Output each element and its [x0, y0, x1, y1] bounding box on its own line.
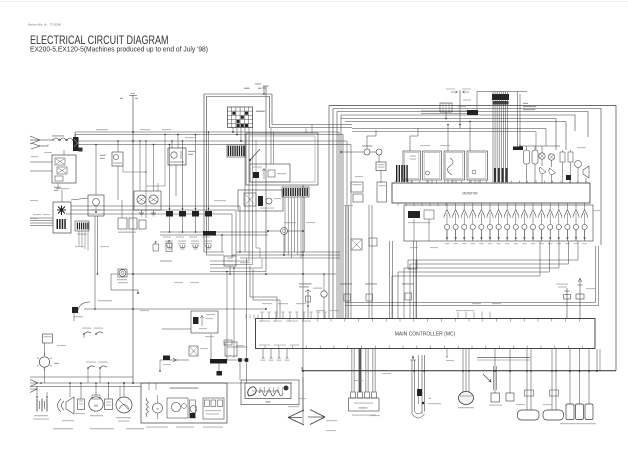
indicator lamp L2: [548, 154, 554, 160]
aircon compressor clutch: [190, 406, 197, 413]
note text: [523, 103, 528, 104]
mc internal bottom ticks: [264, 346, 266, 349]
wire bus drop to engine stop: [221, 235, 223, 252]
wire monitor feed lines: [341, 118, 556, 120]
svg-text:Machine Mfg. No. : TT150045: Machine Mfg. No. : TT150045: [28, 24, 62, 27]
wire key switch lead up: [61, 190, 63, 202]
arrow bus left b: [30, 389, 37, 393]
aux components right: [560, 152, 565, 162]
junction box: [105, 399, 113, 410]
connector pins dark: [396, 165, 397, 182]
wire sensor drop: [459, 90, 461, 129]
wire main bus lines: [75, 131, 339, 133]
ball connector: [462, 349, 464, 392]
wire trunk accessory: [265, 86, 267, 272]
engine stop unit: [224, 256, 236, 266]
monitor unit box: [392, 183, 590, 203]
wire panel feeds: [305, 129, 307, 134]
horn: [66, 397, 74, 414]
wire terminal stub: [263, 86, 265, 94]
wire lamp feeds: [139, 141, 141, 191]
arrow harness left: [288, 410, 304, 418]
engine stop controller box: [250, 164, 290, 182]
fuse box label: [256, 111, 265, 112]
radio unit: [245, 383, 291, 399]
cable loop: [411, 360, 413, 414]
node bus junctions: [132, 131, 134, 133]
gauge lamp pair box: [134, 191, 161, 210]
relay R1 safety: [112, 152, 123, 166]
dark connector band: [210, 359, 227, 364]
arrow harness right: [310, 410, 325, 418]
wire mid risers to mc: [307, 306, 309, 319]
socket connectors: [569, 349, 571, 404]
svg-text:EX200-5,EX120-5(Machines produ: EX200-5,EX120-5(Machines produced up to …: [30, 45, 208, 54]
main controller MC: [256, 319, 596, 349]
pressure switch: [78, 302, 90, 310]
wire bottom bus lower: [30, 386, 141, 388]
starter motor M: [89, 397, 103, 411]
wire fusebox drops: [232, 128, 234, 133]
wire bottom bus upper: [30, 376, 133, 378]
mc internal labels: [259, 321, 270, 322]
wire mid horizontals left: [210, 260, 249, 262]
wire bundle mid pairs: [345, 205, 347, 319]
resistance box: [376, 162, 386, 171]
diode set D1-D4: [165, 241, 173, 242]
wire alternator sense pair: [421, 110, 477, 112]
wire trunk center: [302, 186, 304, 412]
wire bus below mc: [302, 370, 616, 372]
wire key switch link: [71, 198, 88, 200]
fusible link box: [52, 155, 76, 183]
wire key switch outputs: [71, 205, 240, 207]
wire panel drop: [302, 185, 304, 187]
wire frame left verticals: [328, 106, 330, 319]
relay keyswitch right: [88, 195, 104, 216]
wire stub 447: [446, 349, 448, 357]
wire mc right drop: [596, 349, 598, 371]
fuse stub MC2: [579, 278, 581, 319]
wire frame second: [333, 109, 601, 246]
wire radio feed: [246, 258, 248, 383]
key switch KS: [53, 202, 71, 233]
radio enclosure: [241, 380, 299, 405]
panel cluster: [403, 151, 421, 180]
alternator G: [116, 397, 132, 413]
wire driver to MC fan staircase: [392, 241, 540, 319]
monitor bottom pin ticks: [397, 203, 399, 206]
engine stop motor box: [238, 190, 283, 211]
relay box aux2: [369, 238, 377, 246]
misc labels: [96, 129, 108, 130]
connector block CN1: [492, 94, 509, 100]
sensor box C: [377, 182, 387, 202]
transistor array Q1-Q17: [446, 203, 448, 209]
pump cluster boxes: [118, 218, 127, 229]
wire mc bus pair right: [345, 302, 596, 304]
wire pill drops: [526, 164, 528, 183]
relay box aux3: [408, 260, 417, 269]
wire bottom bus main: [30, 382, 292, 384]
wire frame fourth: [341, 115, 575, 131]
panel details: [426, 171, 430, 175]
node trunk top labels: [120, 98, 123, 99]
wire panel feeds: [409, 136, 411, 151]
node bus junctions bottom: [40, 382, 42, 384]
battery relay BR: [73, 137, 79, 151]
wire mid-left risers: [145, 141, 147, 218]
mc top pins right: [457, 312, 459, 319]
wire monitor bundle: [492, 92, 494, 184]
component labels row: [53, 428, 73, 429]
sensor stub A: [82, 328, 91, 329]
gauge pair circles: [364, 149, 370, 155]
wire sol relay: [268, 230, 281, 232]
arrow to battery: [30, 136, 40, 140]
wire trunk keyswitch feed: [132, 95, 134, 383]
connector stub B: [509, 349, 511, 393]
cap boxes above capsules: [550, 390, 559, 396]
wire segment below mc right: [477, 357, 530, 359]
mc internal ticks: [261, 319, 263, 322]
diode flag symbols: [153, 244, 159, 251]
monitor top pin ticks: [394, 181, 396, 184]
wire pipe to engine stop: [204, 251, 224, 253]
fuse box FB1: [228, 107, 253, 128]
relay engine box: [191, 311, 218, 333]
junction white box: [225, 342, 237, 356]
arrow bus left a: [30, 380, 38, 384]
sender unit: [78, 399, 85, 410]
switch panel enclosure: [246, 133, 318, 185]
thermo switch A: [86, 362, 96, 363]
transistor bird symbols: [539, 167, 546, 174]
indicator lamp L1: [539, 153, 545, 159]
annotation arrows: [451, 91, 458, 93]
hour meter HM: [118, 269, 127, 277]
driver left section: [408, 211, 420, 218]
harness arrow pointer: [483, 374, 491, 382]
wire fusible link leads: [30, 161, 52, 163]
wire panel drops: [407, 180, 409, 183]
sensor stub B: [94, 328, 103, 329]
wire comb drops: [78, 231, 80, 246]
wire pressure switch: [84, 308, 266, 310]
wire harness divider: [302, 377, 304, 425]
mc bottom stubs left: [262, 349, 264, 358]
wire frame outer: [302, 106, 616, 371]
connector grid C: [282, 187, 309, 197]
aircon resistor: [146, 398, 149, 417]
work light: [39, 357, 49, 367]
wire relay bus: [160, 231, 268, 233]
svg-text:MONITOR: MONITOR: [463, 192, 479, 196]
sensor arrow wire: [160, 359, 189, 361]
slow blow fuse B: [365, 283, 377, 284]
wire battery pipe bus: [204, 94, 272, 252]
wire mid horizontals: [236, 251, 340, 253]
aircon blower motor: [153, 403, 163, 413]
wire drop pair to radio junctions: [226, 272, 228, 348]
wire driver outputs: [446, 230, 448, 239]
wire harness top link: [477, 91, 527, 93]
fusible link symbol: [307, 289, 309, 306]
ground lamp B: [153, 210, 155, 213]
wire pipe drop to panel: [270, 128, 272, 164]
aircon switch panel: [203, 398, 224, 419]
wire fusebox drop bends: [256, 140, 260, 258]
wire mid-left ties: [123, 171, 146, 173]
mc top pins left: [261, 313, 263, 319]
wire aux pair: [517, 92, 519, 151]
wire frame third: [337, 112, 588, 138]
wire monitor feed extra: [352, 128, 546, 130]
ground lamp A: [141, 210, 143, 213]
page top edge: [0, 1, 628, 3]
thermo switch B: [98, 362, 108, 363]
aircon relay box: [167, 398, 188, 418]
switch lever: [250, 149, 260, 160]
fuel sender box: [43, 334, 53, 343]
sensor box A: [351, 182, 363, 192]
fuse stub MC1: [566, 288, 568, 319]
svg-text:M: M: [94, 403, 97, 408]
wire hour meter: [127, 273, 336, 275]
driver enclosure: [404, 205, 593, 241]
arrow to starter +B: [31, 143, 40, 146]
comb connector: [75, 221, 89, 231]
slow blow fuse C: [402, 283, 414, 284]
svg-text:MAIN CONTROLLER (MC): MAIN CONTROLLER (MC): [395, 332, 456, 338]
sensor box B: [353, 194, 363, 202]
aircon bottom labels: [146, 427, 168, 428]
wire bus corners down: [338, 132, 340, 319]
wire relay engine feed: [162, 328, 191, 330]
node battery terminal labels: [244, 88, 250, 89]
capsule connector B: [551, 349, 553, 410]
battery B1: [36, 399, 38, 412]
wire starter relay leads: [171, 141, 173, 148]
wire relay feeds: [169, 145, 171, 207]
lamp center: [321, 291, 327, 297]
capsule connector A: [526, 349, 528, 410]
relay box aux1: [351, 239, 362, 250]
aircon controller box: [141, 383, 227, 423]
aircon feed wires: [148, 383, 150, 390]
buzzer: [583, 166, 589, 178]
wire keyswitch risers: [94, 216, 96, 309]
pill fuse row: [524, 150, 530, 164]
relay X small: [189, 346, 198, 356]
wire mc feed L pair: [250, 266, 277, 319]
connector stub A: [494, 349, 496, 393]
node frame bus crossings: [413, 370, 415, 372]
spare connector: [440, 103, 452, 112]
connector pins mid dark: [494, 168, 496, 182]
wire grid C drops: [284, 197, 286, 252]
sol relay pair circles: [281, 228, 288, 235]
fusible link harness label: [299, 283, 312, 284]
wire key switch leads left: [30, 217, 53, 219]
slow blow fuse A: [340, 283, 352, 284]
wire radio feed links: [227, 346, 247, 348]
wire bundle corner link: [476, 92, 478, 112]
fuse row F1-F3: [45, 139, 52, 141]
pump connector wires: [351, 349, 353, 392]
starter relay R2: [168, 148, 186, 165]
pump solenoid connector: [349, 398, 380, 411]
relay bank K1-K4: [166, 211, 173, 217]
connector grid A: [227, 145, 245, 157]
